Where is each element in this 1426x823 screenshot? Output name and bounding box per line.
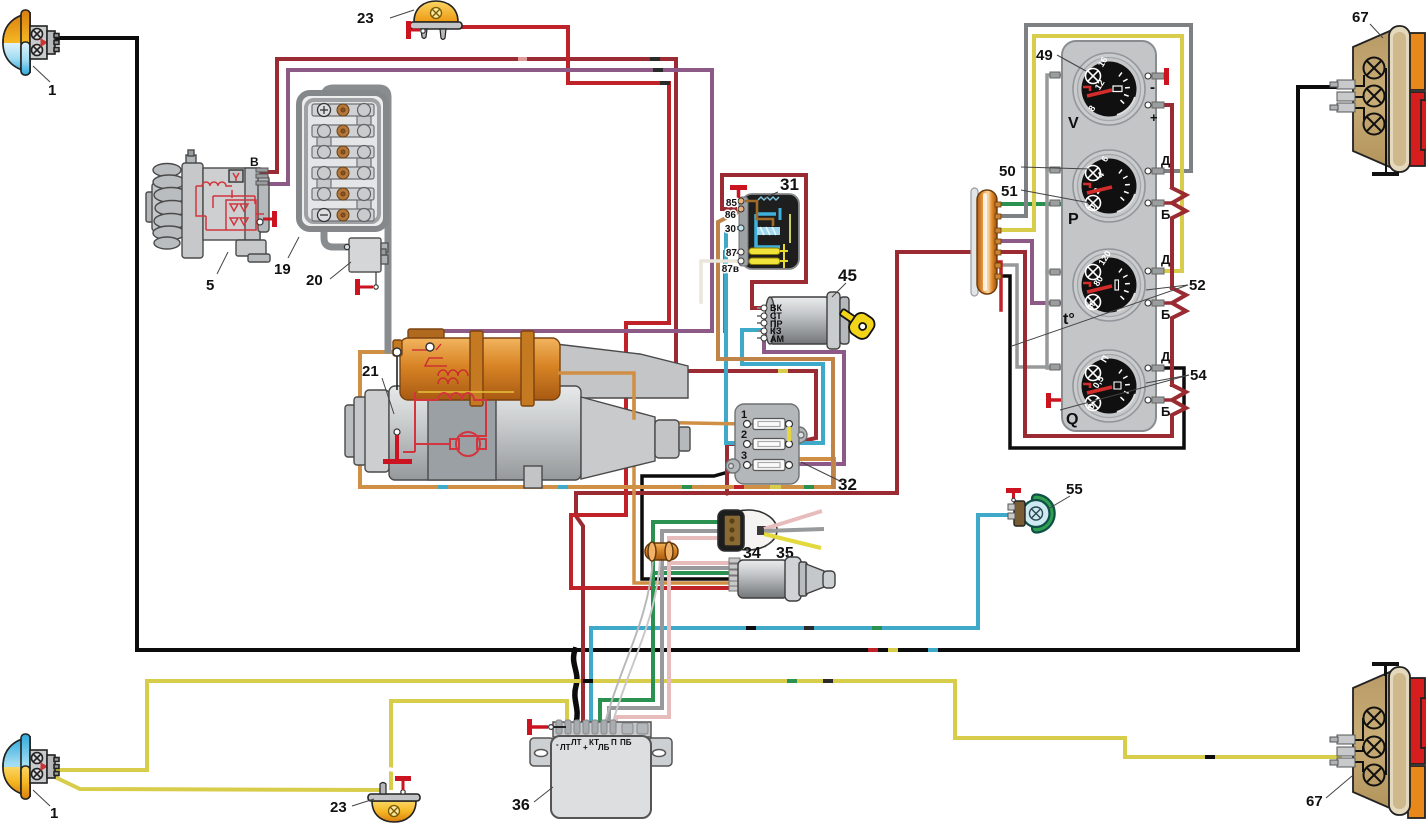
ground lamp23 bottom (395, 776, 411, 790)
label 54 (1146, 375, 1189, 383)
wire red connector stub (993, 262, 1001, 310)
svg-text:P: P (1068, 211, 1079, 228)
wire gray thin capacitor leads (595, 558, 653, 786)
headlight 1 top-left (3, 10, 59, 75)
capacitor (645, 542, 678, 561)
svg-text:87в: 87в (722, 264, 739, 275)
svg-text:1: 1 (741, 409, 747, 421)
pin circles (1145, 73, 1151, 403)
terminal labels D/B (1150, 79, 1171, 419)
wire red relay frame to ignition VK (722, 175, 806, 308)
wire green connector 34 to switch 35 and unit 36 (653, 522, 740, 573)
svg-text:2: 2 (741, 429, 747, 441)
starter internal red circuit (403, 392, 486, 456)
alternator internal red circuit (196, 173, 264, 230)
switch 35 (729, 558, 740, 591)
svg-text:Д: Д (1161, 349, 1171, 364)
wire purple switch AM to fuse3 (764, 338, 844, 464)
svg-text:Б: Б (1161, 307, 1170, 322)
svg-text:Б: Б (1161, 207, 1170, 222)
svg-text:30: 30 (725, 224, 737, 235)
svg-text:+: + (583, 743, 588, 752)
wire orange solenoid to fuse1 overlay (560, 373, 634, 418)
svg-text:t°: t° (1063, 311, 1075, 328)
wire orange starter loop to fuse3 (360, 352, 834, 487)
wire yellow lamp 23 to unit 36 (391, 701, 567, 788)
sensor 55 (1008, 495, 1055, 533)
svg-text:5: 5 (206, 277, 214, 294)
svg-text:67: 67 (1352, 9, 1369, 26)
ground rear light bottom (1372, 662, 1399, 676)
wire red B-pin stubs (1150, 201, 1174, 205)
connector 34 fan wires (764, 511, 822, 529)
wire gray connector 34 to switch 35 and unit 36 (662, 531, 740, 568)
svg-text:23: 23 (330, 799, 347, 816)
svg-text:23: 23 (357, 10, 374, 27)
wire purple relay pin 87 drop (725, 252, 740, 331)
svg-text:ЛТ: ЛТ (560, 743, 571, 752)
ground rear light top (1372, 172, 1399, 176)
label 52 (1012, 285, 1188, 346)
ground alternator (263, 211, 277, 227)
svg-text:67: 67 (1306, 793, 1323, 810)
gauge Q (1066, 350, 1145, 428)
wire gray connector to gauge Q lamp (993, 265, 1062, 367)
node junction red at 727,493 (724, 490, 729, 495)
wire cyan sensor 55 to unit 36 (591, 515, 1014, 722)
gauge t° (1063, 249, 1145, 328)
svg-text:32: 32 (838, 475, 857, 494)
ignition switch 45 (765, 292, 849, 349)
svg-text:87: 87 (726, 248, 738, 259)
wire white relay 87v (701, 261, 737, 302)
svg-text:45: 45 (838, 266, 857, 285)
svg-text:ПБ: ПБ (620, 738, 632, 747)
fuse block 32 (726, 404, 807, 484)
svg-text:-: - (1150, 79, 1155, 96)
ground relay 31 (730, 185, 747, 198)
svg-text:54: 54 (1190, 367, 1207, 384)
alternator 5 (146, 150, 270, 262)
wire orange solenoid to fuse1 and switch 35 (560, 373, 740, 583)
tick marks on wires (388, 59, 1213, 770)
wire black main loop headlight1 to rear light 67 (57, 38, 1340, 650)
gauge pins left (1050, 72, 1060, 370)
wire cyan relay pin30 to fuse2 (726, 228, 790, 443)
wire gray lamp bus on cluster (1047, 75, 1062, 368)
resistor chevron P-B (1172, 188, 1186, 288)
resistor chevron Q-B (1172, 385, 1186, 415)
fuse jumper yellow (787, 427, 791, 441)
svg-text:49: 49 (1036, 47, 1053, 64)
solenoid on starter (393, 329, 560, 406)
relay 31 (738, 194, 799, 269)
wire gray fusebox minus to relay 20 (324, 212, 346, 247)
label 50 (1021, 167, 1090, 169)
wire red V minus to ground (1150, 74, 1163, 78)
wire pink connector 34 to switch 35 and unit 36 (669, 538, 740, 563)
svg-text:3: 3 (741, 450, 747, 462)
wire black fuse3 to switch 35 (642, 467, 746, 579)
label 51 (1021, 190, 1090, 203)
wire green connector to gauge P lamp2 (993, 202, 1060, 206)
fuse box 19 (299, 93, 386, 229)
instrument cluster panel (1062, 41, 1156, 431)
svg-text:51: 51 (1001, 183, 1018, 200)
wire orange relay 85-86 drop (718, 210, 833, 487)
key in switch 45 (834, 302, 877, 342)
svg-text:86: 86 (725, 210, 737, 221)
svg-text:19: 19 (274, 261, 291, 278)
label 49 (1057, 55, 1086, 71)
svg-text:31: 31 (780, 175, 799, 194)
svg-text:ЛБ: ЛБ (598, 743, 610, 752)
svg-text:36: 36 (512, 797, 530, 814)
starter 21 (345, 344, 690, 488)
wire purple connector to gauge t lamp2 (993, 241, 1086, 303)
unit 36 (530, 722, 672, 818)
wire dark red bus fuse2 to connector and unit 36 (727, 444, 746, 493)
gauge pins right (1152, 73, 1164, 403)
svg-text:50: 50 (999, 163, 1016, 180)
gauge V (1068, 53, 1145, 132)
ground Q gauge (1046, 393, 1061, 408)
wire purple alternator B to relay and solenoid (262, 70, 712, 345)
wire cyan ignition KZ loop to fuse2 (742, 330, 823, 443)
svg-text:20: 20 (306, 272, 323, 289)
node junction black at 575,650 (572, 647, 578, 653)
wire yellow headlight to lamp 23 bottom (57, 778, 380, 790)
ground V gauge (1164, 68, 1169, 85)
wire dark red alternator B to fuse block 32 (262, 59, 816, 443)
svg-text:Б: Б (1161, 404, 1170, 419)
svg-text:V: V (1068, 115, 1079, 132)
wire yellow tail-light run headlight1 to rear light 67 bottom (57, 681, 1340, 770)
gauge P (1068, 150, 1145, 228)
svg-text:Д: Д (1161, 252, 1171, 267)
svg-text:-: - (556, 740, 559, 749)
svg-text:Q: Q (1066, 411, 1078, 428)
ground relay 20 (355, 279, 373, 295)
ground starter (383, 435, 412, 464)
resistor chevron t-B (1172, 288, 1186, 385)
wire bright red lamp23 top run to switch 35 (444, 27, 740, 588)
svg-text:55: 55 (1066, 481, 1083, 498)
relay 20 (349, 238, 388, 272)
svg-text:52: 52 (1189, 277, 1206, 294)
connector 34 (718, 510, 777, 551)
svg-text:85: 85 (726, 198, 738, 209)
svg-text:1: 1 (50, 805, 58, 822)
svg-text:+: + (1150, 110, 1158, 125)
svg-text:АМ: АМ (770, 334, 784, 344)
wire dark red cluster feed frame with limiter chevrons (993, 252, 1172, 436)
wire black connector to gauge Q terminal D (993, 276, 1184, 448)
lamp 23 top (410, 1, 462, 40)
svg-text:1: 1 (48, 82, 56, 99)
wire yellow cluster frame connector to gauge t terminal D (993, 36, 1182, 271)
svg-text:21: 21 (362, 363, 379, 380)
wire gray battery cable fusebox to starter (324, 88, 388, 350)
lamp 23 bottom (368, 783, 420, 823)
wire dark gray cluster frame connector to gauge P terminal D (993, 25, 1191, 216)
wire black wiggly drop to unit 36 (574, 650, 578, 723)
rear light 67 top-right (1353, 26, 1426, 172)
solenoid winding detail (412, 344, 514, 392)
rear light 67 bottom-right (1353, 667, 1426, 818)
svg-text:П: П (611, 738, 617, 747)
svg-text:ЛТ: ЛТ (571, 738, 582, 747)
svg-text:В: В (250, 155, 259, 169)
ground sensor 55 (1006, 488, 1021, 501)
headlight 1 bottom-left (3, 734, 59, 799)
connector block orange (harness) (971, 188, 1001, 296)
ground unit 36 (527, 719, 548, 735)
ground lamp23 top (406, 21, 420, 39)
svg-text:Д: Д (1161, 153, 1171, 168)
